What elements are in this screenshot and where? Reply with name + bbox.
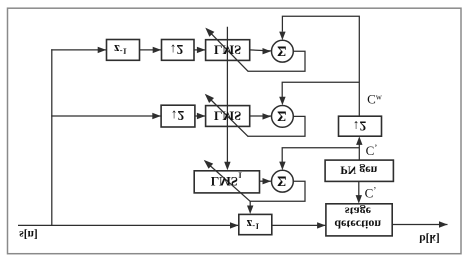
label LMS row2 [214, 109, 241, 123]
wire PN gen down to detection stage [358, 181, 360, 197]
label z^-1 in Z2 [247, 217, 260, 232]
wire PN gen up to downsampler [358, 143, 360, 160]
arrow into Z1 [98, 47, 107, 53]
label C'1 (middle coefficient net) [366, 143, 378, 158]
wire LMS to summer row2 [250, 115, 271, 117]
arrow into LMS1 top [224, 162, 230, 171]
delay box Z1 (z^-1, row 1) [107, 40, 140, 61]
arrow down into detection stage [356, 195, 362, 204]
downsample box D1 (#8595;2, row 1) [162, 40, 195, 61]
adaptive filter box LMS1 (row 3) [194, 171, 259, 193]
label LMS1 [211, 171, 242, 189]
feedback loop + adaptation arrow row 3 [204, 160, 305, 202]
wire bottom delay to detection stage [272, 224, 326, 226]
label detection stage line1 [345, 204, 372, 218]
downsample box D2 (#8595;2, row 2) [161, 105, 195, 127]
detection stage box [326, 204, 392, 236]
row2 branch wire [51, 115, 161, 117]
arrow into LMS row1 [197, 47, 206, 53]
label b[k] [419, 232, 439, 244]
svg-text:s[n]: s[n] [19, 228, 38, 240]
svg-text:↓2: ↓2 [353, 118, 367, 133]
downsample box D3 (#8595;2, right column) [339, 116, 382, 136]
label downarrow-2 in D2 [171, 108, 185, 123]
label C'2 (lower coefficient net) [365, 185, 377, 200]
arrow into D1 [153, 47, 162, 53]
arrow down into summer U2 [279, 97, 285, 106]
arrow into summer U1 [263, 48, 272, 54]
bus vertical wire [51, 49, 53, 226]
arrow into bottom delay box [230, 222, 239, 228]
arrow into detection stage [317, 222, 326, 228]
wire D2 to LMS row2 [195, 115, 206, 117]
feedback loop + adaptation arrow row 2 [205, 94, 305, 137]
arrow into summer U3 [263, 178, 272, 184]
label s[n] [19, 228, 38, 240]
label z^-1 in Z1 [114, 42, 127, 57]
wire D1 to LMS row1 [194, 49, 205, 51]
wire LMS1 to summer row3 [260, 180, 272, 182]
delay box Z2 (z^-1, bottom) [239, 214, 272, 234]
vertical wire into LMS1 [226, 27, 228, 162]
arrow into D2 [152, 113, 161, 119]
adaptive filter box LMS (row 1) [206, 40, 250, 61]
label downarrow-2 in D3 [353, 118, 367, 133]
label C'N (top coefficient net) [367, 92, 383, 107]
label PN gen [340, 163, 377, 177]
input wire s[n] [18, 224, 52, 226]
arrow up into right downsampler [356, 136, 362, 145]
wire feedback drop into bottom delay box [249, 201, 251, 207]
arrow down into summer U1 [279, 32, 285, 40]
node: s[n] bus junction [51, 224, 238, 226]
svg-text:LMS: LMS [214, 43, 241, 57]
arrow into LMS row2 [197, 113, 206, 119]
svg-text:b[k]: b[k] [419, 232, 439, 244]
svg-text:stage: stage [345, 204, 372, 218]
svg-text:LMS: LMS [214, 109, 241, 123]
wire top feedback (right col to U1) [282, 16, 359, 116]
wire low feedback (right col to U3) [282, 148, 359, 162]
adaptive filter box LMS (row 2) [206, 106, 250, 127]
feedback loop + adaptation arrow row 1 [205, 28, 305, 72]
arrow output b[k] [439, 221, 448, 227]
arrow into summer U2 [263, 113, 272, 119]
summer U2 (sigma circle, row 2) [272, 106, 294, 128]
summer U3 (sigma circle, row 3) [272, 170, 294, 192]
svg-text:PN gen: PN gen [340, 163, 377, 177]
arrow into bottom delay box top [247, 206, 253, 215]
PN generator box [325, 160, 393, 181]
arrow down into summer U3 [279, 162, 285, 171]
wire LMS to summer row1 [250, 50, 271, 51]
label downarrow-2 in D1 [170, 42, 184, 57]
label detection stage line2 [334, 217, 381, 231]
label LMS row1 [214, 43, 241, 57]
svg-text:Σ: Σ [277, 172, 286, 188]
svg-text:Σ: Σ [277, 107, 286, 123]
wire mid feedback (right col to U2) [282, 82, 359, 97]
svg-text:↓2: ↓2 [171, 108, 185, 123]
svg-text:Σ: Σ [277, 42, 286, 58]
svg-text:detection: detection [334, 217, 381, 231]
summer U1 (sigma circle, row 1) [272, 40, 294, 62]
output wire p[k] [392, 224, 447, 226]
wire Z1 to D1 [140, 49, 162, 51]
row1 branch wire [51, 49, 106, 51]
svg-text:↓2: ↓2 [170, 42, 184, 57]
